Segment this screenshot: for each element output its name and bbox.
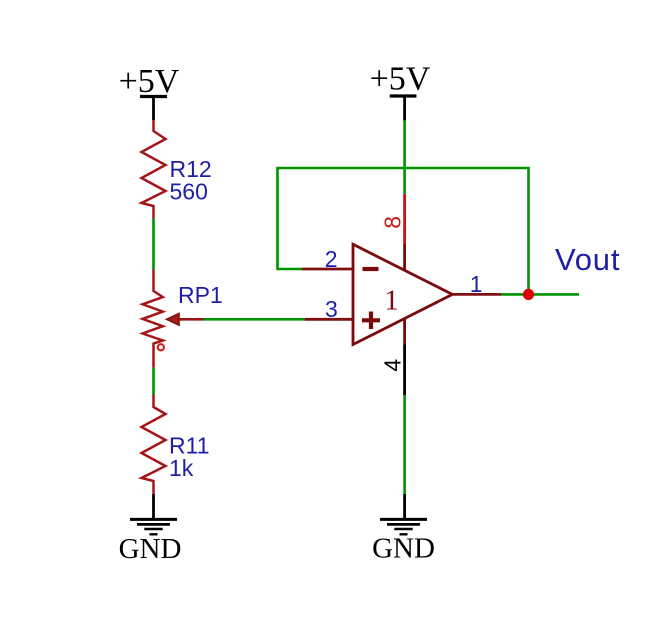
power symbol bar (left) xyxy=(140,95,167,98)
svg-text:3: 3 xyxy=(325,296,338,322)
wire (supply down, green) xyxy=(403,120,406,194)
RP1 wiper arrow xyxy=(167,314,180,326)
svg-text:+5V: +5V xyxy=(370,61,431,98)
wire (right power stub, black) xyxy=(403,96,406,120)
pin 8 wire (red) xyxy=(403,194,406,244)
wire (left power stub, black) xyxy=(152,97,155,121)
op-amp minus sign xyxy=(363,267,379,271)
wire (to ground, black) xyxy=(403,494,406,519)
svg-text:8: 8 xyxy=(380,216,406,229)
svg-text:1k: 1k xyxy=(169,455,194,481)
wire (pin 4 to ground, green) xyxy=(403,395,406,494)
wire (R12 to RP1, green) xyxy=(152,219,155,270)
potentiometer RP1 body xyxy=(143,270,163,368)
ground symbol (left) xyxy=(130,519,177,534)
svg-text:GND: GND xyxy=(372,533,435,565)
pin 4 stub (dark red) xyxy=(403,319,406,344)
svg-text:+5V: +5V xyxy=(119,63,180,100)
pin 1 stub (dark red) xyxy=(452,293,501,296)
svg-text:2: 2 xyxy=(325,246,338,272)
ground symbol (right) xyxy=(380,519,427,534)
svg-text:1: 1 xyxy=(384,285,399,317)
wire (R11 to ground, black) xyxy=(152,494,155,519)
output wire (green) xyxy=(501,293,579,296)
svg-text:GND: GND xyxy=(119,533,182,565)
pin 8 stub (dark red) xyxy=(403,244,406,270)
RP1 wiper terminal circle xyxy=(158,344,164,350)
resistor R12 xyxy=(142,120,166,219)
feedback wire (green) xyxy=(278,168,529,294)
op-amp plus sign xyxy=(362,318,380,322)
wire (wiper to pin 3, green) xyxy=(204,318,305,321)
pin 2 stub (dark red) xyxy=(302,268,353,271)
resistor R11 xyxy=(142,395,166,495)
pin 4 wire (black) xyxy=(403,345,406,396)
svg-text:1: 1 xyxy=(470,271,483,297)
junction dot xyxy=(523,289,534,300)
svg-text:4: 4 xyxy=(380,359,406,372)
pin 3 stub (dark red) xyxy=(305,318,353,321)
power symbol bar (right) xyxy=(390,94,417,97)
svg-text:560: 560 xyxy=(170,178,208,204)
svg-text:RP1: RP1 xyxy=(178,282,223,308)
svg-text:Vout: Vout xyxy=(555,242,620,277)
wire (RP1 to R11, green) xyxy=(152,368,155,395)
op-amp U1 triangle xyxy=(353,244,452,344)
